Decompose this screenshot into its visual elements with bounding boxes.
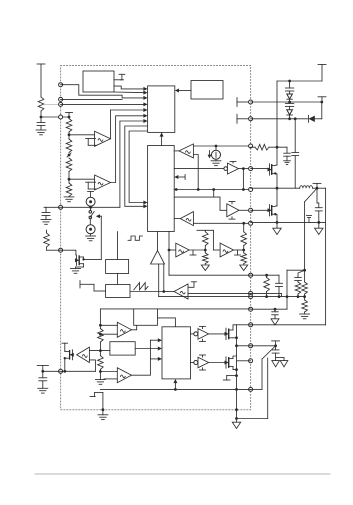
resistor R14 xyxy=(302,270,308,296)
op-amp A3 xyxy=(227,204,239,217)
wire xyxy=(114,86,148,91)
ref bar xyxy=(200,368,206,370)
wire xyxy=(158,318,176,327)
wire xyxy=(188,292,251,294)
terminal T7 xyxy=(237,114,251,123)
ground xyxy=(71,267,81,273)
wire xyxy=(174,150,179,152)
buffer T5 xyxy=(180,212,193,226)
wire xyxy=(233,356,237,370)
junction xyxy=(67,153,71,157)
node R1 xyxy=(249,100,253,104)
driver D2 xyxy=(194,357,209,368)
node R13 xyxy=(249,344,253,348)
resistor R1 xyxy=(38,97,44,111)
arrow to return xyxy=(201,264,209,271)
wire xyxy=(294,119,296,153)
wire xyxy=(237,360,251,362)
wire xyxy=(169,274,251,276)
ground xyxy=(41,216,51,225)
wire xyxy=(61,250,76,255)
wire xyxy=(114,79,122,81)
diode D5 xyxy=(285,99,293,115)
crystal Y1 xyxy=(119,74,125,80)
ref bar xyxy=(229,202,235,204)
wire xyxy=(287,269,306,272)
wire xyxy=(117,232,119,260)
resistor R6 xyxy=(203,230,209,245)
wire xyxy=(251,274,279,277)
wire xyxy=(242,169,245,191)
wire xyxy=(68,132,95,139)
wire xyxy=(237,345,251,347)
wire xyxy=(251,146,287,149)
controller U1 xyxy=(148,86,175,132)
ref bar xyxy=(188,282,197,288)
arrow xyxy=(208,151,212,159)
capacitor C6 xyxy=(315,188,322,222)
node R2 xyxy=(249,117,253,121)
transistor M3 xyxy=(75,255,85,266)
block B6 xyxy=(110,342,135,355)
wire xyxy=(96,214,102,218)
resistor R12 xyxy=(255,144,269,150)
capacitor C11 xyxy=(276,275,283,296)
wire xyxy=(89,360,95,371)
wire xyxy=(175,89,191,93)
wire xyxy=(313,187,326,190)
wire xyxy=(111,108,148,139)
op-amp A5 xyxy=(117,368,131,383)
terminal T11 xyxy=(90,393,104,415)
resistor R8 xyxy=(241,222,247,246)
wire (bus) xyxy=(251,295,306,298)
arrow to return xyxy=(273,222,281,234)
wire xyxy=(237,324,251,326)
terminal T9 xyxy=(80,281,106,292)
ref bar xyxy=(200,355,206,357)
wire xyxy=(132,325,137,330)
node R7 xyxy=(249,221,253,225)
wire (faint) xyxy=(44,104,60,106)
resistor R17 xyxy=(264,275,270,296)
terminal T17 xyxy=(37,366,48,372)
wire xyxy=(162,264,174,293)
capacitor C8 xyxy=(295,270,305,280)
wire xyxy=(89,206,92,211)
resistor R13 xyxy=(295,280,301,296)
capacitor C10 xyxy=(272,346,284,361)
terminal T1 (top-left rail) xyxy=(37,64,45,97)
wire xyxy=(239,209,251,211)
wire xyxy=(277,80,322,83)
ground xyxy=(211,159,221,165)
ref bar xyxy=(230,162,236,164)
transistor Q2 xyxy=(225,357,234,368)
wire xyxy=(251,101,324,104)
wire xyxy=(193,222,250,224)
arrow to return xyxy=(240,264,248,271)
wire xyxy=(251,344,277,347)
wire xyxy=(174,190,214,198)
node R6 xyxy=(249,208,253,212)
wire xyxy=(47,249,61,251)
wire xyxy=(150,338,162,342)
ref bar xyxy=(200,326,206,328)
wire xyxy=(157,232,159,251)
wire xyxy=(174,218,180,220)
wire xyxy=(44,206,120,208)
wire xyxy=(135,347,162,351)
switch SW1 xyxy=(89,211,94,219)
op-amp A1 xyxy=(95,131,111,146)
controller U2 xyxy=(148,146,175,232)
wire (diagonal) xyxy=(305,188,317,270)
resistor R10 xyxy=(98,329,104,343)
wire xyxy=(130,291,164,293)
resistor R7 xyxy=(203,250,209,264)
node R4 xyxy=(249,167,253,171)
arrow to return xyxy=(232,419,240,429)
wire (bus) xyxy=(251,221,326,224)
wire (bus) xyxy=(100,388,250,390)
wire xyxy=(150,357,162,361)
node IN4 xyxy=(59,115,63,119)
block B4 xyxy=(106,285,130,298)
wire xyxy=(125,126,148,208)
wire xyxy=(174,175,185,180)
node R10 xyxy=(249,295,253,299)
op-amp A6 xyxy=(176,243,189,257)
wire xyxy=(213,230,220,250)
wire (bus) xyxy=(174,188,250,191)
ground xyxy=(284,156,291,164)
wire xyxy=(129,131,148,205)
node IN5 xyxy=(59,205,63,209)
node IN6 xyxy=(59,248,63,252)
wire xyxy=(61,85,148,100)
gate driver U3 xyxy=(162,327,191,379)
wire xyxy=(193,155,198,190)
wire xyxy=(239,167,251,170)
wire xyxy=(76,264,84,267)
resistor R16 xyxy=(44,230,50,250)
block B5 xyxy=(134,309,158,325)
ref bar xyxy=(190,250,196,255)
wire xyxy=(191,333,194,335)
current source CS1 xyxy=(86,197,95,206)
wire xyxy=(197,229,213,231)
wire xyxy=(251,293,282,296)
terminal T6 xyxy=(237,98,251,107)
inductor L1 xyxy=(300,186,313,189)
terminal T18 xyxy=(62,343,68,351)
wire xyxy=(64,351,66,371)
block B2 xyxy=(191,81,223,100)
capacitor C7 (ref) xyxy=(307,216,312,223)
terminal T15 xyxy=(272,341,280,346)
ground xyxy=(300,314,310,319)
junction xyxy=(68,116,71,119)
wire xyxy=(68,172,95,184)
wire xyxy=(120,119,148,207)
capacitor C2 xyxy=(42,207,50,215)
node IN2 xyxy=(59,97,63,101)
wire xyxy=(99,370,117,373)
wire xyxy=(233,325,237,338)
block B1 xyxy=(83,71,114,92)
ground xyxy=(64,197,74,202)
offset ref A1 xyxy=(86,139,97,146)
wire xyxy=(214,197,227,210)
resistor R11 xyxy=(98,356,104,370)
wire xyxy=(251,187,300,190)
node R14 xyxy=(249,359,253,363)
terminal T3 xyxy=(88,192,94,198)
capacitor C3 xyxy=(39,371,47,388)
wire xyxy=(193,145,250,148)
block B3 xyxy=(106,260,129,274)
wire xyxy=(40,111,42,117)
wire xyxy=(117,274,119,285)
sawtooth symbol xyxy=(134,283,148,290)
ref bar xyxy=(200,339,206,341)
capacitor C5 xyxy=(284,147,291,156)
ref bar xyxy=(235,250,241,255)
ground xyxy=(36,126,46,135)
module boundary (dotted) xyxy=(61,66,251,410)
node R8 xyxy=(249,273,253,277)
buffer T16 xyxy=(77,347,90,362)
wire (rail) xyxy=(100,308,250,310)
offset ref A2 xyxy=(86,182,97,189)
ref bar xyxy=(229,217,235,219)
resistor R15 xyxy=(302,297,308,314)
buffer B1 xyxy=(174,163,238,174)
arrow to return xyxy=(280,361,288,367)
terminal T10 xyxy=(223,376,236,380)
driver D1 xyxy=(194,329,209,340)
wire xyxy=(160,132,164,145)
capacitor C4 xyxy=(292,152,299,188)
wire xyxy=(191,362,194,364)
wire xyxy=(251,168,269,170)
capacitor C1 xyxy=(37,117,45,126)
arrow to return xyxy=(271,319,279,325)
node R15 xyxy=(249,387,253,391)
wire xyxy=(209,333,226,335)
diode D6 xyxy=(309,115,322,122)
wire xyxy=(89,350,110,352)
ground xyxy=(86,234,96,241)
node IN3 xyxy=(59,102,63,106)
wire xyxy=(84,216,102,259)
wire xyxy=(61,98,123,100)
current source CS3 xyxy=(212,146,221,159)
wire xyxy=(251,115,308,120)
node IN7 xyxy=(59,369,63,373)
wire xyxy=(104,378,117,380)
wire xyxy=(41,116,69,118)
wire xyxy=(286,270,289,309)
wire xyxy=(99,309,101,329)
op-amp A4 xyxy=(117,322,131,337)
op-amp A2 xyxy=(95,175,111,190)
buffer T4 xyxy=(179,144,193,158)
junction xyxy=(40,116,43,119)
wire xyxy=(111,114,148,183)
terminal T2 xyxy=(66,113,73,118)
wire (rail) xyxy=(276,81,278,147)
wire xyxy=(99,324,117,327)
wire xyxy=(251,324,326,326)
resistor R3 xyxy=(66,139,72,153)
ground xyxy=(98,415,108,420)
wire (rail) xyxy=(235,325,238,420)
amplifier A8 xyxy=(151,251,165,265)
op-amp A7 xyxy=(220,243,233,257)
ground xyxy=(95,380,105,385)
wire xyxy=(251,209,269,211)
pulse symbol xyxy=(128,236,143,240)
wire xyxy=(132,340,151,375)
wire xyxy=(276,147,277,165)
resistor R5 xyxy=(66,183,72,196)
wire xyxy=(276,188,277,206)
arrow to return xyxy=(272,361,280,367)
node R3 xyxy=(249,144,253,148)
node R12 xyxy=(249,323,253,327)
wire xyxy=(99,333,117,336)
wire xyxy=(61,102,148,106)
capacitor C9 xyxy=(272,308,279,319)
wire xyxy=(158,264,160,297)
terminal T14 xyxy=(313,183,321,188)
wire xyxy=(276,215,277,223)
wire xyxy=(159,296,251,298)
node R9 xyxy=(249,291,253,295)
wire xyxy=(41,370,95,373)
wire xyxy=(321,102,323,119)
current source CS2 xyxy=(86,219,95,234)
resistor R9 xyxy=(241,250,247,264)
wire xyxy=(189,246,207,252)
wire xyxy=(99,342,102,356)
node R11 xyxy=(249,307,253,311)
transistor M4 xyxy=(64,350,74,360)
diode D4 xyxy=(285,81,293,99)
transistor Q1 xyxy=(225,328,234,339)
wire (diagonal) xyxy=(251,346,276,390)
ground xyxy=(38,388,48,393)
arrow to return xyxy=(315,222,323,234)
wire xyxy=(99,369,101,379)
wire xyxy=(237,358,268,419)
node IN1 xyxy=(59,83,63,87)
resistor R4 xyxy=(66,158,72,172)
wire xyxy=(234,246,246,252)
wire xyxy=(276,174,277,188)
node R5 xyxy=(249,188,253,192)
wire xyxy=(168,232,176,276)
wire xyxy=(209,362,226,364)
transistor M2 xyxy=(268,205,277,216)
wire (rail) xyxy=(325,188,327,325)
buffer T8 xyxy=(174,284,188,299)
terminal T13 xyxy=(318,97,326,102)
wire xyxy=(114,91,148,95)
wire xyxy=(173,379,177,391)
resistor R2 xyxy=(66,119,72,133)
wire xyxy=(251,308,287,310)
terminal T12 (HV) xyxy=(318,65,326,82)
transistor M1 xyxy=(268,164,277,175)
